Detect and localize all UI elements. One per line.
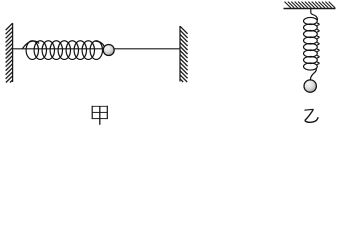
ball (甲) (103, 45, 114, 56)
vertical spring (乙) (304, 9, 320, 80)
ball (乙) (304, 80, 316, 92)
ceiling (乙 figure) (284, 2, 336, 9)
label 甲 (92, 106, 108, 125)
left wall (甲 figure) (6, 23, 13, 83)
horizontal spring (甲) (22, 41, 104, 60)
right wall (甲 figure) (180, 26, 188, 82)
axis line / string from wall through spring to right wall (13, 48, 180, 50)
label 乙 (304, 109, 318, 122)
